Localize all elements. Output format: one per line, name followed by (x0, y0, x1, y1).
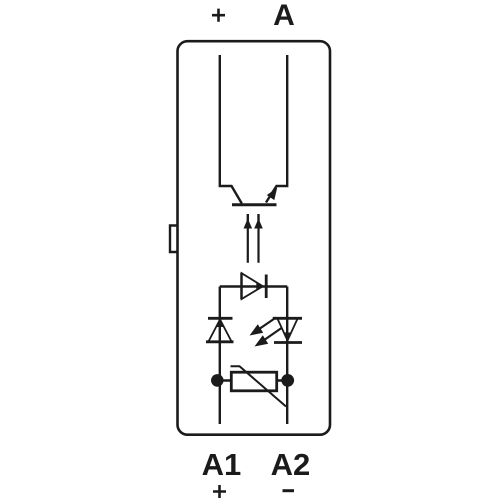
svg-text:A1: A1 (202, 447, 242, 482)
svg-text:A: A (273, 0, 295, 32)
svg-text:A2: A2 (271, 447, 311, 482)
